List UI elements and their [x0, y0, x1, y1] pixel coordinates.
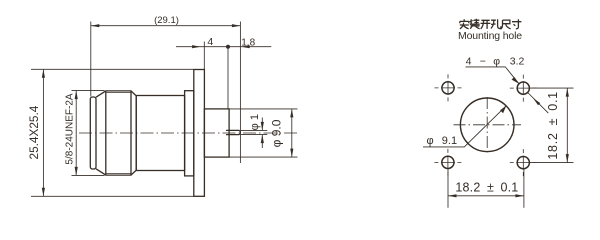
svg-text:4: 4 — [466, 56, 472, 68]
svg-text:φ: φ — [427, 135, 434, 147]
svg-text:25.4X25.4: 25.4X25.4 — [27, 105, 41, 159]
svg-text:−: − — [480, 56, 486, 68]
svg-text:3.2: 3.2 — [510, 56, 525, 68]
svg-text:Mounting hole: Mounting hole — [458, 30, 522, 42]
svg-text:φ 9.0: φ 9.0 — [270, 119, 284, 147]
svg-text:18.2 ± 0.1: 18.2 ± 0.1 — [455, 180, 518, 194]
svg-text:5/8-24UNEF-2A: 5/8-24UNEF-2A — [65, 93, 76, 164]
svg-text:φ 1: φ 1 — [249, 114, 261, 130]
svg-text:φ: φ — [493, 56, 500, 68]
svg-text:1.8: 1.8 — [241, 37, 255, 48]
svg-text:(29.1): (29.1) — [154, 15, 179, 26]
svg-text:18.2 ± 0.1: 18.2 ± 0.1 — [546, 91, 560, 160]
svg-text:9.1: 9.1 — [442, 135, 457, 147]
svg-text:4: 4 — [207, 36, 213, 48]
